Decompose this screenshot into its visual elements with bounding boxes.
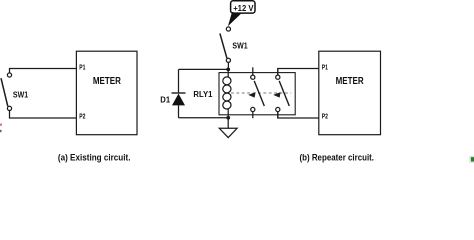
diode D1 triangle (172, 94, 185, 106)
switch SW1 (b) blade (220, 33, 227, 58)
artifact red dash left edge (0, 124, 2, 126)
contact 2 bottom stub (277, 112, 279, 118)
wire P2 bottom (a) (10, 110, 77, 118)
switch SW1 (a) blade (1, 78, 8, 106)
linkage dashed line (231, 92, 291, 94)
artifact dark dash left edge (0, 130, 2, 132)
artifact green blob bottom right (471, 157, 474, 161)
svg-text:P1: P1 (322, 62, 328, 71)
contact 1 bottom terminal (251, 107, 255, 111)
meter box (a) (76, 51, 137, 135)
contact 1 arrow (248, 92, 255, 98)
node junction top (226, 68, 230, 72)
svg-text:+12 V: +12 V (233, 3, 254, 13)
svg-text:P2: P2 (79, 112, 85, 121)
wire P1 (b) (278, 69, 319, 76)
contact 2 top terminal (276, 75, 280, 79)
contact 1 top stub (252, 67, 254, 75)
relay RLY1 box (219, 73, 295, 115)
+12V callout wedge (228, 12, 241, 26)
svg-text:(a) Existing circuit.: (a) Existing circuit. (58, 152, 131, 162)
svg-text:METER: METER (336, 76, 365, 87)
diode D1 cathode bar (172, 92, 186, 94)
svg-text:D1: D1 (160, 95, 170, 105)
wire ground stub (227, 118, 229, 129)
switch SW1 (b) terminal top (226, 27, 230, 31)
svg-text:RLY1: RLY1 (193, 89, 212, 99)
relay coil RLY1 (222, 76, 232, 110)
svg-text:SW1: SW1 (13, 90, 28, 100)
wire bottom rail (179, 117, 229, 119)
svg-text:METER: METER (93, 76, 122, 87)
switch SW1 (a) terminal bottom (7, 106, 11, 110)
coil top lead (227, 69, 229, 77)
wire P2 (b) (278, 112, 319, 118)
contact 1 top terminal (251, 75, 255, 79)
wire P1 top (a) (10, 69, 77, 74)
switch SW1 (b) terminal bottom (226, 58, 230, 62)
contact 2 arrow (273, 92, 280, 98)
svg-text:SW1: SW1 (232, 41, 247, 51)
svg-text:(b) Repeater circuit.: (b) Repeater circuit. (300, 152, 375, 162)
wire D1 anode lead (178, 105, 180, 117)
contact 2 bottom terminal (276, 107, 280, 111)
contact 1 bottom stub (252, 112, 254, 119)
+12V supply box (231, 1, 255, 13)
ground (219, 128, 237, 137)
wire top rail (179, 68, 229, 70)
node junction bottom (226, 116, 230, 120)
contact 1 blade (254, 81, 264, 106)
svg-text:P2: P2 (322, 112, 328, 121)
contact 2 blade (279, 81, 289, 106)
meter box (b) (319, 51, 381, 135)
wire D1 cathode lead (178, 69, 180, 93)
coil bottom lead (227, 109, 229, 118)
svg-text:P1: P1 (79, 62, 85, 71)
switch SW1 (a) terminal top (7, 73, 11, 77)
wire SW1 to node (227, 62, 229, 69)
contact 2 top stub (277, 69, 279, 76)
